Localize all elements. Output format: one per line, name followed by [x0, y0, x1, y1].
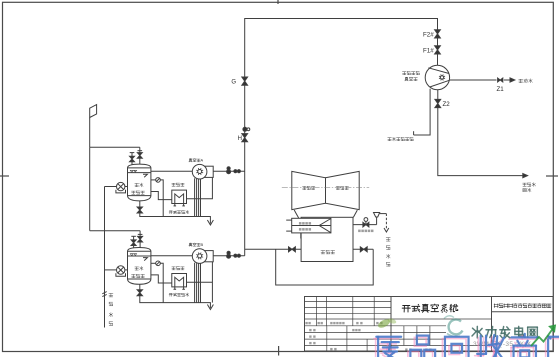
watermark hydro site name: [472, 326, 537, 337]
flag symbol on makeup water line: [90, 105, 97, 148]
valve A vent: [130, 153, 135, 165]
wire makeup water vertical: [89, 147, 91, 230]
valve pump A discharge: [227, 167, 231, 174]
title text: [391, 304, 492, 351]
wire circulating water supply to condenser: [245, 248, 301, 250]
wire pump B discharge: [213, 255, 245, 257]
svg-text:Z2: Z2: [443, 101, 451, 108]
wire arrow to pressure water: [504, 78, 533, 83]
svg-text:Z1: Z1: [497, 86, 505, 93]
watermark green leaves: [377, 317, 397, 329]
instrument sight glass A: [151, 178, 163, 217]
valve H: [238, 134, 248, 143]
valve B vent: [131, 236, 136, 248]
wire to condensate pump dashed: [380, 214, 389, 232]
wire condenser outlet: [353, 248, 373, 250]
valve F2#: [423, 30, 440, 39]
wire pump A seal water drains: [195, 178, 201, 216]
fitting double circle on header: [243, 127, 250, 131]
separator vessel B: [128, 248, 151, 285]
wire pump B seal water drains: [195, 263, 201, 303]
centrifugal jet vacuum pump: [402, 65, 449, 89]
watermark hydro site logo swirl: [444, 316, 463, 337]
title block outline: [305, 297, 554, 352]
vacuum pump B: [189, 242, 213, 263]
condenser: [301, 217, 353, 261]
wire main suction header top: [245, 19, 438, 256]
valve condenser outlet: [360, 247, 367, 252]
wire unit A inlet pipe: [90, 146, 140, 148]
instrument sight glass B: [151, 261, 163, 303]
wire steam-water mixture outlet leader: [388, 89, 430, 141]
valve Z2: [435, 90, 450, 109]
svg-text:F1#: F1#: [423, 48, 434, 55]
instrument meter B left: [105, 266, 128, 277]
wire vessel B to cooler: [151, 275, 172, 283]
company name: [492, 304, 554, 312]
wire condenser water loop: [276, 249, 374, 285]
valve pump B discharge: [227, 251, 231, 258]
svg-text:B: B: [201, 242, 204, 247]
svg-text:F2#: F2#: [423, 32, 434, 39]
valve A inlet: [137, 147, 142, 164]
valve G: [231, 77, 247, 86]
svg-text:H: H: [238, 136, 242, 142]
instrument meter A left: [105, 182, 128, 192]
svg-text:G: G: [231, 80, 236, 86]
vacuum pump A: [189, 158, 213, 179]
cooler A: [169, 183, 189, 214]
wire unit B drain to waste: [140, 296, 214, 310]
cooler B: [169, 267, 189, 297]
valve vessel B drain: [137, 284, 142, 295]
funnel drain: [374, 213, 380, 225]
wire circulating water return: [438, 108, 536, 192]
wire condensate supply vertical: [102, 187, 106, 328]
turbine LP cylinder left: [292, 171, 326, 209]
valve vessel A drain: [137, 201, 142, 213]
wire cooler B to pump B and drain: [187, 262, 213, 303]
wire turbine exhaust necks: [294, 210, 357, 218]
turbine LP cylinder right: [326, 171, 360, 209]
wire cooler A to pump A: [187, 178, 213, 199]
fitting flanges pump A discharge: [234, 170, 241, 173]
separator vessel A: [128, 164, 151, 201]
valve B inlet: [138, 231, 143, 248]
watermark green rising arrow: [531, 325, 556, 346]
wire vessel B to pump B: [151, 255, 193, 257]
label to condensate pump: [386, 238, 390, 266]
wire vessel A to cooler: [151, 192, 172, 200]
valve Z1: [497, 78, 505, 93]
label condensate water in: [109, 293, 113, 325]
svg-text:A: A: [201, 158, 204, 163]
fitting flanges pump B discharge: [234, 254, 241, 257]
LP heater box: [286, 218, 331, 238]
revision table labels: [305, 322, 382, 350]
valve condenser inlet: [289, 247, 296, 252]
wire vessel A to pump A: [151, 170, 193, 172]
wire pump discharge to pressure water: [450, 79, 497, 81]
revision table grid: [305, 297, 392, 352]
turbine shaft centerline: [282, 187, 369, 189]
watermark recycle site name: [374, 336, 559, 357]
wire unit A drain to waste: [140, 213, 214, 225]
valve vacuum breaker: [353, 218, 377, 233]
valve F1#: [423, 46, 440, 55]
wire pump A discharge: [213, 170, 245, 172]
wire unit B inlet pipe: [90, 230, 140, 232]
